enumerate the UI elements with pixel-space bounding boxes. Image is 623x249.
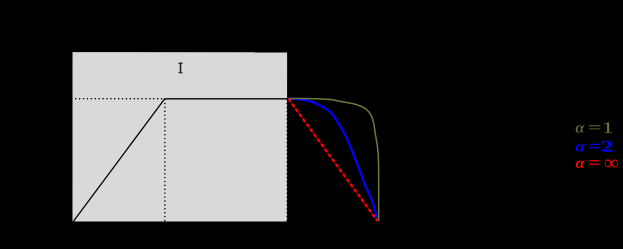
dotted vertical line at corner x <box>164 100 166 222</box>
svg-text:α: α <box>576 155 585 172</box>
svg-text:α: α <box>575 138 585 155</box>
black piecewise-linear curve (ramp then plateau) <box>73 99 288 222</box>
svg-text:=: = <box>588 119 602 136</box>
svg-text:α: α <box>575 119 585 136</box>
svg-text:=: = <box>588 153 601 172</box>
shaded region I (gray rectangle) <box>72 52 287 221</box>
red dashed line alpha=inf <box>288 99 377 221</box>
dotted horizontal line y=1 <box>72 98 165 100</box>
blue curve alpha=2 <box>288 99 377 221</box>
dotted vertical line at right edge of gray region <box>286 100 288 222</box>
dark red solid underlay of dashed line alpha=inf <box>288 99 377 221</box>
region label I <box>178 63 182 74</box>
svg-text:1: 1 <box>602 120 614 137</box>
svg-text:∞: ∞ <box>604 150 618 174</box>
olive curve alpha=1 <box>288 98 378 221</box>
